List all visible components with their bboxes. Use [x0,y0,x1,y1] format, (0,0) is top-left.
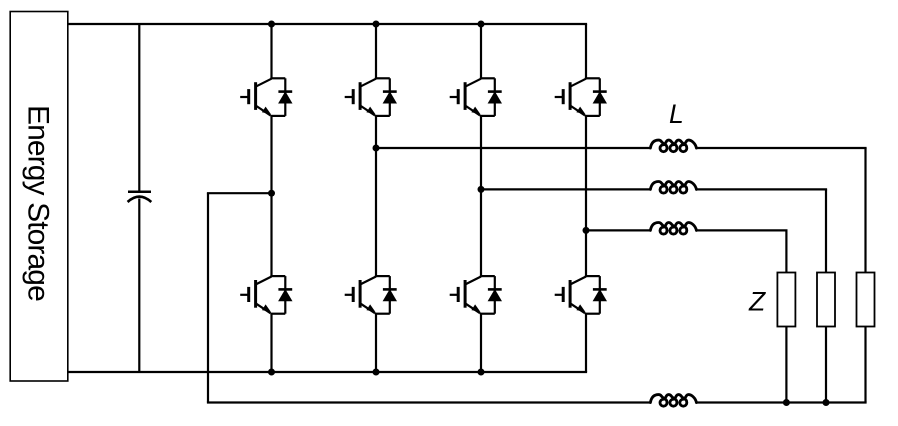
wire capacitor top lead [138,24,140,193]
diode D6 cathode bar [383,288,397,291]
junction dot bottom bus leg 3 [478,369,485,376]
transistor Q7 collector lead [465,277,481,285]
transistor Q1 gate lead [240,96,249,98]
diode D8 branch wire [599,276,601,314]
diode D8 cathode bar [593,288,607,291]
diode D3 triangle [488,91,502,103]
wire phase A inductor to corner [695,147,866,149]
diode D7 branch wire [494,276,496,314]
wire leg 2 middle segment [375,116,377,276]
transistor Q5 body bar [254,280,257,308]
junction dot top bus leg 3 [478,21,485,28]
wire Q1 collector-diode top jog [270,77,285,79]
diode D1 triangle [278,91,292,103]
wire leg 3 lower segment [480,314,482,372]
diode D6 triangle [383,289,397,301]
wire leg 1 lower segment [270,314,272,372]
transistor Q6 body bar [359,280,362,308]
wire Q5 emitter-diode bottom jog [270,313,285,315]
wire Q7 collector-diode top jog [480,275,495,277]
wire Q7 emitter-diode bottom jog [480,313,495,315]
svg-text:Energy Storage: Energy Storage [21,105,54,301]
transistor Q4 emitter lead [570,106,585,116]
transistor Q2 collector lead [360,79,376,87]
transistor Q1 body bar [254,82,257,110]
transistor Q5 gate lead [240,294,249,296]
wire phase C down to load [785,230,787,272]
junction dot leg 2 midpoint (phase A) [373,145,380,152]
diode D3 branch wire [494,78,496,116]
transistor Q8 emitter lead [570,303,585,313]
transistor Q4 gate lead [555,96,564,98]
wire Q6 collector-diode top jog [375,275,390,277]
wire Z3 bottom lead [864,327,866,403]
wire phase A to inductor [376,147,651,149]
capacitor C1 top plate [128,190,151,193]
transistor Q8 body bar [569,280,572,308]
diode D7 cathode bar [488,288,502,291]
transistor Q3 body bar [464,82,467,110]
diode D2 triangle [383,91,397,103]
wire phase C inductor to corner [695,229,787,231]
wire leg 3 middle segment [480,116,482,276]
transistor Q7 emitter arrow [471,304,480,312]
wire phase C to inductor [586,229,651,231]
wire Q4 collector-diode top jog [585,77,600,79]
wire leg 4 middle segment [585,116,587,276]
inductor L2 (phase B) [650,182,696,194]
transistor Q4 body bar [569,82,572,110]
transistor Q5 collector lead [256,277,272,285]
diode D1 cathode bar [278,90,292,93]
wire Q1 emitter-diode bottom jog [270,115,285,117]
capacitor C1 bottom plate (curved) [128,197,152,202]
transistor Q2 gate bar [352,89,355,104]
wire negative DC bus (bottom) [68,371,587,373]
transistor Q3 emitter lead [465,106,480,116]
wire leg 1 middle segment [270,116,272,276]
transistor Q3 gate bar [457,89,460,104]
transistor Q4 collector lead [570,79,586,87]
diode D1 branch wire [284,78,286,116]
resistor Z2 (load impedance) [817,273,835,327]
wire Q3 emitter-diode bottom jog [480,115,495,117]
diode D4 triangle [593,91,607,103]
diode D3 cathode bar [488,90,502,93]
wire leg 2 upper segment [375,24,377,78]
inductor L4 (neutral) [650,395,696,407]
wire positive DC bus (top) [68,23,587,25]
transistor Q5 emitter arrow [262,304,271,312]
resistor Z1 (load impedance) [777,273,795,327]
transistor Q8 gate lead [555,294,564,296]
junction dot leg 3 midpoint (phase B) [478,186,485,193]
diode D2 branch wire [389,78,391,116]
transistor Q3 emitter arrow [471,107,480,115]
transistor Q1 collector lead [256,79,272,87]
wire Q3 collector-diode top jog [480,77,495,79]
wire leg 3 upper segment [480,24,482,78]
transistor Q8 emitter arrow [576,304,585,312]
diode D2 cathode bar [383,90,397,93]
transistor Q6 collector lead [360,277,376,285]
diode D6 branch wire [389,276,391,314]
transistor Q2 body bar [359,82,362,110]
wire neutral to inductor [207,401,652,403]
energy storage source ES1 (box) [10,12,68,382]
transistor Q5 emitter lead [256,303,271,313]
wire Q8 collector-diode top jog [585,275,600,277]
transistor Q8 gate bar [562,287,565,302]
inductor L3 (phase C) [650,223,696,235]
wire Q2 collector-diode top jog [375,77,390,79]
junction dot top bus leg 2 [373,21,380,28]
transistor Q1 gate bar [247,89,250,104]
transistor Q5 gate bar [247,287,250,302]
wire neutral tap vertical [207,193,209,402]
diode D5 branch wire [284,276,286,314]
diode D7 triangle [488,289,502,301]
diode D4 branch wire [599,78,601,116]
transistor Q6 emitter lead [360,303,375,313]
diode D4 cathode bar [593,90,607,93]
wire neutral inductor to end [695,401,866,403]
transistor Q6 gate bar [352,287,355,302]
transistor Q2 emitter lead [360,106,375,116]
wire Q4 emitter-diode bottom jog [585,115,600,117]
wire phase B down to load [825,189,827,272]
diode D8 triangle [593,289,607,301]
transistor Q6 emitter arrow [366,304,375,312]
transistor Q7 emitter lead [465,303,480,313]
transistor Q7 gate bar [457,287,460,302]
wire phase A down to load [864,148,866,273]
wire neutral tap horizontal [207,192,272,194]
wire Q5 collector-diode top jog [270,275,285,277]
wire capacitor bottom lead [138,199,140,373]
diode D5 triangle [278,289,292,301]
junction dot bottom bus leg 2 [373,369,380,376]
wire phase B inductor to corner [695,188,827,190]
svg-text:L: L [669,99,684,129]
transistor Q8 collector lead [570,277,586,285]
transistor Q1 emitter lead [256,106,271,116]
transistor Q7 body bar [464,280,467,308]
transistor Q3 gate lead [450,96,459,98]
transistor Q3 collector lead [465,79,481,87]
diode D5 cathode bar [278,288,292,291]
junction dot neutral Z1 [783,399,790,406]
transistor Q2 emitter arrow [366,107,375,115]
wire leg 1 upper segment [270,24,272,78]
svg-text:Z: Z [748,286,766,316]
transistor Q7 gate lead [450,294,459,296]
wire leg 4 lower segment [585,314,587,372]
wire Q2 emitter-diode bottom jog [375,115,390,117]
junction dot neutral Z2 [823,399,830,406]
inductor L1 (phase A) [650,140,696,152]
wire Q6 emitter-diode bottom jog [375,313,390,315]
junction dot bottom bus leg 1 [268,369,275,376]
junction dot top bus leg 1 [268,21,275,28]
transistor Q4 gate bar [562,89,565,104]
wire leg 4 upper segment [585,24,587,78]
transistor Q4 emitter arrow [576,107,585,115]
wire Z1 bottom lead [785,327,787,403]
transistor Q1 emitter arrow [262,107,271,115]
wire leg 2 lower segment [375,314,377,372]
transistor Q2 gate lead [345,96,354,98]
junction dot leg 1 midpoint (neutral tap) [268,190,275,197]
transistor Q6 gate lead [345,294,354,296]
junction dot leg 4 midpoint (phase C) [583,227,590,234]
wire Q8 emitter-diode bottom jog [585,313,600,315]
wire Z2 bottom lead [825,327,827,403]
wire phase B to inductor [481,188,651,190]
resistor Z3 (load impedance) [857,273,875,327]
